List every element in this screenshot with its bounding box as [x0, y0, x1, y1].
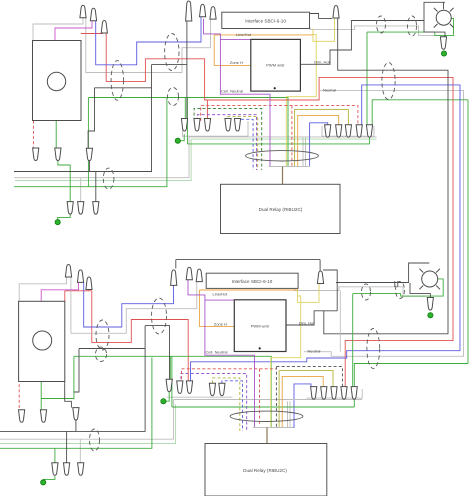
wirenut W2: [90, 8, 96, 21]
cable marker E8 bundle: [246, 151, 319, 161]
cable marker E3: [168, 88, 179, 106]
wire dark: wirenut W4 drop to wirenut W2a: [186, 21, 188, 118]
wire dark: run to lamp L2: [336, 263, 429, 283]
wire blue: wirenut W7 to relay bundle: [310, 123, 328, 167]
wire green: middle ground run: [187, 143, 369, 145]
wire dark: interface U1 jog to wirenut W6: [310, 14, 333, 19]
wire gray: interface U1 to lamp nut: [310, 26, 441, 36]
wire dark: branch run bottom: [79, 348, 145, 350]
wire gray: wirenut W1 to wirenut W5: [86, 18, 211, 73]
ground dot C: [441, 51, 446, 56]
wire magenta: switch S1 to wirenut W2: [55, 21, 92, 41]
wire yellow: interface U3 to relay bundle: [271, 296, 301, 428]
wire red: switch S1 to wirenut W3: [81, 33, 103, 35]
lamp L2: [419, 269, 440, 290]
wire red dashed: switch S1 drop: [32, 121, 34, 148]
wire green: riser join: [87, 98, 89, 187]
wire red: hot run switch S1 through right edge to bottom Neutral: [106, 34, 453, 387]
wire red dashed: neutral loop to wirenut W10: [201, 106, 358, 125]
wirenut X11: [209, 383, 215, 396]
wire orange: wirenut W8 to relay bundle: [298, 115, 339, 166]
wire gray: interface U3 drop to Neutral: [339, 291, 341, 352]
cable marker E7: [382, 63, 395, 100]
wirenut X22: [64, 463, 70, 476]
tick mark 1 near lamp L2: [394, 281, 396, 287]
wire blue: wirenut W2 to wirenut W4: [96, 17, 201, 65]
wirenut X16: [341, 387, 347, 400]
wire green: riser join to switch S2 green: [41, 356, 74, 398]
wire green: branch to wirenut X8: [169, 356, 171, 379]
svg-text:Dim, Hot: Dim, Hot: [314, 59, 330, 64]
wirenut X7: [317, 271, 323, 284]
wirenut W14: [67, 202, 73, 215]
wirenut X3b: [86, 277, 92, 290]
wire gray: frame under right nuts: [322, 126, 374, 136]
wire orange: nut to relay bundle bottom: [282, 376, 323, 427]
cable marker F5: [362, 284, 371, 300]
wire blue: wirenut X13 to relay bundle: [274, 384, 311, 428]
wire green: lamp L2 ground drop: [352, 294, 354, 387]
wire gray: bottom nut to interface nut: [71, 277, 197, 333]
wire dark: jog bottom: [74, 349, 79, 393]
tick mark 2 near lamp L2: [397, 281, 399, 287]
svg-text:PWM w/dr: PWM w/dr: [251, 324, 270, 329]
wire gray: frame under center nuts: [183, 119, 249, 136]
wire gray: drop 2 to relay bundle: [305, 137, 307, 167]
wirenut X15: [331, 387, 337, 400]
wire green: branch to wirenut W2a: [184, 98, 186, 118]
wirenut W2c: [204, 119, 210, 132]
lamp L1: [434, 8, 454, 28]
wire blue dashed: bottom bundle: [222, 381, 243, 431]
switch S2: [19, 301, 65, 381]
relay K1: [221, 184, 341, 233]
wire green: switch S2 to wirenut X2: [40, 382, 42, 410]
wire blue: wirenut W10 right edge to bottom wirenut X10: [191, 85, 461, 381]
wire green: lamp L1 ground loop: [367, 19, 454, 36]
wire green: pigtail to ground dot 2: [180, 134, 184, 141]
wire yellow: interface U1 to wirenut W6: [313, 18, 335, 41]
cable marker F4: [90, 429, 100, 451]
wire gray: switch S2 to wirenut X1: [19, 277, 66, 301]
cable marker E5: [377, 16, 386, 33]
wire green: pigtail to ground dot: [58, 214, 70, 220]
wire dark: nut to junction: [323, 270, 337, 311]
wire red dashed: bottom bundle: [182, 369, 277, 379]
cable marker E4: [103, 168, 114, 189]
cable marker F3: [95, 347, 106, 361]
wire dark: branch run: [95, 87, 152, 89]
cable marker F1: [96, 320, 109, 350]
wirenut W12a: [33, 148, 39, 161]
wire yellow: interface U3 to wirenut X7: [298, 284, 320, 303]
wire gray: drop to relay bundle: [302, 137, 304, 167]
wire red: switch S2 top: [65, 290, 92, 292]
ground dot F: [428, 313, 433, 318]
svg-text:Zone H: Zone H: [230, 60, 243, 65]
wire green: middle ground run bottom: [172, 406, 354, 408]
svg-text:Line/Hot: Line/Hot: [236, 32, 252, 37]
wire dark: to wirenut W13: [88, 88, 94, 148]
svg-text:Zone H: Zone H: [214, 322, 227, 327]
cable marker F6: [396, 282, 405, 299]
wire dkgreen dashed: to relay bundle: [194, 108, 262, 170]
wirenut X1: [65, 265, 71, 278]
wire gray: drop 2: [289, 401, 291, 427]
wire orange: Zone H to PWM U2: [214, 35, 251, 66]
wire dark: roof drop to nut right: [319, 260, 321, 272]
wirenut W10: [356, 125, 362, 138]
wire green: pigtail to ground dot bottom: [165, 390, 169, 401]
cable marker E6: [408, 16, 417, 36]
wirenut W5: [210, 7, 216, 20]
wirenut W13: [86, 148, 92, 161]
wirenut W17 lamp L1: [440, 37, 446, 50]
wire red: switch S2 to wirenut X10: [92, 291, 188, 381]
wire dark dashed: drop to relay bundle bottom: [275, 367, 277, 428]
wire orange: Line/Hot bottom: [199, 289, 297, 291]
wire olive dashed: bottom bundle: [212, 378, 239, 431]
svg-text:Dual Relay (RIBU2C): Dual Relay (RIBU2C): [259, 207, 303, 212]
wire dark: lamp L1 to nut drop: [424, 21, 445, 37]
wirenut W9: [345, 125, 351, 138]
wire dark: wirenut W5 stub to interface U1 top: [212, 12, 214, 19]
wire red: stub to wirenut W2c: [206, 100, 208, 119]
wire green: drop to nut: [54, 448, 56, 463]
wire magenta: switch S2 to wirenut X2b: [41, 282, 78, 301]
cable marker F7: [367, 329, 380, 369]
switch S1: [33, 41, 82, 121]
interface U3: [206, 273, 298, 288]
wire ground pale: bottom feeder: [0, 404, 176, 444]
wirenut W2b: [194, 119, 200, 132]
wire dark: wirenut W6 drop: [337, 18, 339, 50]
svg-text:PWM w/dr: PWM w/dr: [266, 63, 285, 68]
wire dark: left feeder hot run: [14, 65, 152, 172]
svg-text:Dim, Hot: Dim, Hot: [299, 320, 315, 325]
wire red: stub to bottom wirenut: [87, 290, 89, 291]
wirenut X18: [19, 410, 25, 423]
wirenut X17: [351, 387, 357, 400]
wire green: branch riser bottom: [171, 356, 173, 407]
wire gray: switch S1 top to wirenut W1: [33, 18, 83, 41]
wirenut W4b: [200, 4, 206, 17]
wirenut X23: [78, 463, 84, 476]
wire yellow: interface U1 to relay bundle: [286, 35, 316, 167]
wire green: main ground to relay K2: [74, 356, 271, 427]
wire green: nut to right edge: [372, 100, 468, 125]
wirenut W8: [336, 125, 342, 138]
svg-text:Neutral: Neutral: [308, 349, 321, 354]
wire purple dashed: bottom bundle: [181, 373, 247, 431]
wire green: left feeder ground run: [14, 98, 167, 187]
wire dark: roof drop to nut: [175, 260, 177, 269]
wirenut X6: [196, 269, 202, 282]
ground dot A: [55, 220, 60, 225]
wirenut X4 tall: [171, 270, 177, 286]
wirenut W7: [325, 125, 331, 138]
wire orange: Zone H to PWM U4: [199, 290, 234, 326]
wirenut W6: [333, 6, 339, 19]
PWM unit U2: [251, 39, 301, 91]
cable marker E1: [111, 61, 123, 101]
wire green: bottom feeder ground: [0, 358, 152, 449]
wire gray: middle neutral run: [189, 136, 377, 138]
cable marker F2: [152, 298, 167, 334]
wire green: lamp L1 ground drop: [366, 32, 368, 125]
wire violet: Line/Hot to PWM U2: [220, 38, 250, 40]
svg-text:Ceil. Neutral: Ceil. Neutral: [205, 350, 227, 355]
wire green: nut pigtail: [369, 136, 371, 144]
wire dark: roof run over interface U3: [176, 259, 320, 261]
wirenut X10: [186, 381, 192, 394]
wire dark: drop to wirenut W16: [95, 172, 97, 202]
wire gray: frame under right nuts: [307, 389, 363, 398]
wire gray: bottom middle run: [174, 399, 363, 401]
wirenut X14: [321, 387, 327, 400]
wire olive: wirenut W9 to relay bundle: [295, 110, 349, 167]
wire green: switch S1 to wirenut W12: [55, 121, 57, 149]
wire green: main ground run to relay K1: [88, 98, 288, 167]
wire gray: drop to wirenut W15: [80, 178, 82, 202]
svg-text:Interface SBCI-6-10: Interface SBCI-6-10: [245, 19, 286, 24]
wire dark dashed: loop to wirenut X16: [276, 367, 342, 387]
wire green: right edge run down: [467, 100, 469, 364]
relay K2: [205, 444, 327, 496]
wirenut X20: [73, 408, 79, 421]
wire blue dashed: wirenut to relay bundle: [238, 119, 253, 170]
wire violet: Ceil.Neutral to relay K1: [204, 19, 271, 167]
wire ground pale: left feeder: [15, 139, 191, 181]
wirenut W3: [101, 21, 107, 34]
svg-text:Ceil. Neutral: Ceil. Neutral: [221, 89, 243, 94]
PWM unit U4: [234, 300, 286, 352]
svg-text:Interface SBCI-6-10: Interface SBCI-6-10: [232, 279, 273, 284]
wire dark: nut pigtail bottom: [75, 418, 77, 431]
wire red dashed: drop to relay bundle: [291, 106, 293, 167]
wire green: pigtail to ground dot: [43, 476, 55, 481]
wirenut W2a: [181, 119, 187, 132]
wire red dashed: drop through cable F8: [259, 369, 261, 426]
wirenut W15: [78, 202, 84, 215]
cable marker E2: [165, 34, 179, 71]
wirenut X8: [166, 379, 172, 392]
wirenut W2d: [225, 119, 231, 132]
svg-text:Line/Hot: Line/Hot: [213, 291, 229, 296]
wire gray: drop to bottom nut: [79, 439, 81, 462]
wire ground pale: middle run: [191, 138, 377, 140]
wire dark: branch to feeder: [152, 64, 187, 66]
terminal bar above relay K2: [253, 427, 293, 429]
wire violet: Line/Hot to PWM U4: [205, 299, 234, 301]
wirenut X2b: [77, 270, 83, 283]
terminal bar above relay K1: [269, 166, 309, 168]
wirenut W2e: [234, 119, 240, 132]
wire dark: wirenut W13 pigtail: [88, 160, 90, 171]
wire dark: lamp L2 to nut drop: [410, 283, 430, 298]
wire dark: switch S2 to wirenut X3: [65, 382, 72, 408]
wire dark: lamp L1 right side: [443, 2, 445, 9]
wire dark: Dim Hot PWM U2 to lamp L1: [300, 2, 445, 64]
wire red dashed: switch S2 drop: [18, 384, 20, 409]
wirenut W4 tall: [186, 1, 192, 21]
wirenut W12: [55, 148, 61, 161]
wire gray: frame under nuts: [167, 396, 233, 398]
wirenut W11: [366, 125, 372, 138]
wirenut X13: [311, 387, 317, 400]
ground dot D: [41, 480, 46, 485]
svg-text:Neutral: Neutral: [323, 88, 336, 93]
wire gray: interface U3 to lamp L2 nut: [295, 287, 426, 297]
wire green: lamp L2 ground loop: [353, 279, 444, 296]
wirenut X12: [219, 383, 225, 396]
wire brown: relay K2 stub: [266, 428, 268, 444]
wire green: wirenut W12 pigtail to wirenut W14: [58, 160, 70, 201]
wire dark: to wirenut row bottom: [145, 326, 169, 380]
wire gray: drop to relay bundle: [287, 401, 289, 427]
wire green: nut pigtail bottom: [353, 397, 355, 407]
wire gray: left feeder neutral run: [14, 137, 189, 178]
wire olive dashed: to relay bundle: [228, 117, 258, 170]
wire green: right edge into bottom nut: [354, 364, 468, 387]
wire gray: bottom left feeder: [0, 400, 174, 440]
wirenut X5: [186, 267, 192, 280]
wire gray: Neutral run right edge top-to-bottom: [304, 90, 464, 356]
wire dark: Dim Hot PWM U4: [286, 311, 337, 325]
wire purple dashed: to relay bundle: [197, 115, 256, 170]
wirenut X9: [177, 381, 183, 394]
wire green: branch riser: [186, 98, 188, 144]
wire dark: bottom feeder hot run: [0, 326, 145, 432]
ground dot E: [161, 399, 166, 404]
svg-text:Dual Relay (RIBU2C): Dual Relay (RIBU2C): [243, 468, 287, 473]
wire brown: relay K1 stub: [282, 167, 284, 185]
wirenut X24 lamp L2: [427, 298, 433, 311]
wirenut W1: [80, 5, 86, 17]
wire orange: Line/Hot run: [214, 34, 313, 36]
interface U1: [222, 12, 310, 28]
wire violet: nut to Ceil.Neutral to relay K2: [188, 280, 255, 428]
wirenut W16: [93, 202, 99, 215]
wire olive: nut to relay bundle bottom: [279, 371, 333, 428]
wirenut X21: [52, 463, 58, 476]
wire dark: drop to bottom nut: [66, 431, 68, 462]
cable marker F8 bundle: [230, 411, 303, 421]
wire blue: wirenut X2b to interface nut: [84, 282, 174, 327]
wirenut X19: [40, 410, 46, 423]
wire red: switch S2 corner: [64, 291, 66, 302]
wire dark: switched hot right edge to bottom half: [324, 50, 448, 334]
ground dot B: [175, 138, 180, 143]
